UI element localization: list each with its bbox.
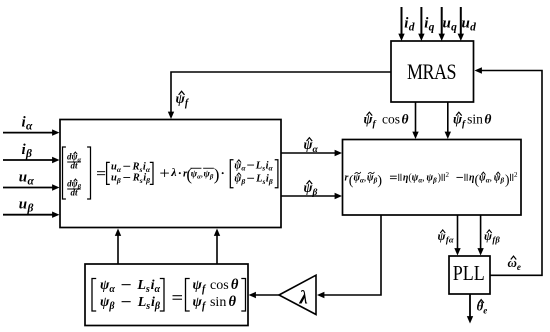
svg-text:β: β bbox=[494, 235, 500, 245]
svg-text:): ) bbox=[438, 173, 441, 184]
label decomposition equation bbox=[92, 277, 246, 312]
svg-text:β: β bbox=[26, 203, 33, 215]
block MRAS bbox=[391, 41, 474, 102]
svg-text:s: s bbox=[139, 176, 143, 185]
wire input i_α bbox=[3, 129, 60, 135]
svg-text:λ: λ bbox=[170, 165, 177, 179]
svg-text:cos: cos bbox=[210, 278, 229, 293]
svg-text:2: 2 bbox=[514, 171, 518, 179]
label psi_f_hat cos theta bbox=[364, 112, 409, 130]
label u_β bbox=[19, 197, 34, 215]
svg-text:θ: θ bbox=[229, 294, 237, 310]
svg-text:s: s bbox=[145, 301, 150, 312]
block r-function bbox=[343, 140, 522, 216]
block PLL bbox=[449, 256, 490, 294]
label psi_alpha_hat bbox=[304, 137, 319, 155]
svg-text:): ) bbox=[505, 172, 510, 187]
label psi_f_alpha_hat bbox=[438, 229, 454, 245]
wire theta_e_hat PLL output bbox=[467, 294, 473, 324]
block observer: adaptive flux observer equation box bbox=[60, 120, 281, 228]
wire input u_d into MRAS bbox=[458, 7, 464, 41]
svg-text:q: q bbox=[451, 22, 457, 34]
wire lambda output to flux decomposition box bbox=[249, 292, 280, 298]
svg-text:α: α bbox=[26, 120, 33, 132]
label observer equation bbox=[63, 147, 278, 199]
label omega_e_hat bbox=[508, 255, 521, 272]
svg-text:ψ: ψ bbox=[193, 278, 203, 293]
svg-text:u: u bbox=[19, 197, 27, 213]
svg-text:u: u bbox=[443, 16, 451, 32]
label theta_e_hat bbox=[477, 299, 488, 316]
svg-text:sin: sin bbox=[467, 112, 483, 127]
svg-text:β: β bbox=[145, 176, 150, 185]
svg-text:,: , bbox=[489, 173, 492, 184]
svg-text:): ) bbox=[214, 165, 220, 184]
wire r output to lambda gain bbox=[317, 215, 381, 298]
label psi_f_hat sin theta bbox=[453, 112, 491, 130]
label i_q bbox=[424, 16, 434, 34]
svg-text:β: β bbox=[116, 176, 121, 185]
svg-text:2: 2 bbox=[445, 171, 449, 179]
wire decomposition to observer right bbox=[214, 229, 220, 265]
svg-text:e: e bbox=[517, 262, 521, 272]
svg-text:α: α bbox=[154, 284, 160, 295]
svg-text:d: d bbox=[470, 22, 476, 34]
svg-text:u: u bbox=[19, 169, 27, 185]
block flux decomposition box bbox=[85, 264, 248, 326]
svg-text:θ: θ bbox=[231, 277, 239, 293]
svg-text:L: L bbox=[255, 160, 262, 171]
svg-text:s: s bbox=[145, 284, 150, 295]
svg-text:α: α bbox=[27, 175, 34, 187]
label r-function equation bbox=[345, 171, 519, 188]
svg-text:u: u bbox=[462, 16, 470, 32]
svg-text:β: β bbox=[268, 177, 273, 186]
label i_β bbox=[22, 142, 32, 160]
svg-text:β: β bbox=[108, 301, 115, 312]
wire input i_β bbox=[3, 157, 60, 163]
wire input u_α bbox=[3, 184, 60, 190]
svg-text:θ: θ bbox=[484, 112, 491, 127]
wire psi_f_hat cos(theta) from MRAS to r-box bbox=[412, 102, 418, 139]
label i_α bbox=[22, 114, 33, 132]
svg-text:q: q bbox=[429, 22, 435, 34]
svg-text:s: s bbox=[262, 177, 266, 186]
wire input i_d into MRAS bbox=[398, 7, 404, 41]
wire psi_f_alpha_hat r-box to PLL bbox=[454, 215, 460, 256]
wire psi_f_beta_hat r-box to PLL bbox=[477, 215, 483, 256]
svg-text:β: β bbox=[154, 301, 161, 312]
label psi_beta_hat bbox=[304, 180, 318, 198]
label psi_f_beta_hat bbox=[484, 229, 500, 245]
svg-text:β: β bbox=[499, 177, 504, 185]
svg-text:L: L bbox=[136, 278, 146, 293]
svg-text:L: L bbox=[255, 174, 262, 185]
svg-text:β: β bbox=[312, 188, 318, 198]
svg-text:α: α bbox=[109, 284, 115, 295]
svg-text:): ) bbox=[377, 173, 382, 188]
svg-text:,: , bbox=[422, 173, 425, 184]
svg-text:cos: cos bbox=[382, 112, 400, 127]
wire input i_q into MRAS bbox=[418, 7, 424, 41]
svg-text:β: β bbox=[25, 148, 32, 160]
svg-text:R: R bbox=[132, 162, 140, 173]
svg-text:λ: λ bbox=[299, 289, 308, 309]
wire input u_q into MRAS bbox=[439, 7, 445, 41]
svg-text:α: α bbox=[449, 235, 454, 245]
wire decomposition to observer left bbox=[115, 229, 121, 265]
wire psi_f_hat from MRAS to observer bbox=[168, 72, 391, 119]
label u_q bbox=[443, 16, 458, 34]
svg-text:d: d bbox=[409, 22, 415, 34]
gain lambda triangle bbox=[279, 275, 316, 314]
svg-text:sin: sin bbox=[210, 295, 226, 310]
svg-text:L: L bbox=[137, 295, 147, 310]
wire psi_beta_hat observer to r-box bbox=[281, 193, 342, 199]
wire omega_e_hat PLL to MRAS feedback bbox=[475, 67, 543, 275]
wire psi_f_hat sin(theta) from MRAS to r-box bbox=[445, 102, 451, 139]
label psi_f_hat bbox=[176, 91, 190, 109]
svg-text:e: e bbox=[483, 306, 487, 316]
svg-text:PLL: PLL bbox=[453, 262, 485, 286]
svg-text:β: β bbox=[240, 177, 245, 186]
label u_α bbox=[19, 169, 35, 187]
label u_d bbox=[462, 16, 477, 34]
svg-text:s: s bbox=[261, 164, 265, 173]
svg-text:R: R bbox=[132, 173, 140, 184]
wire psi_alpha_hat observer to r-box bbox=[281, 150, 342, 156]
svg-text:β: β bbox=[432, 177, 437, 185]
svg-text:ψ: ψ bbox=[193, 295, 203, 310]
wire input u_β bbox=[3, 212, 60, 218]
svg-text:MRAS: MRAS bbox=[407, 60, 456, 84]
svg-text:α: α bbox=[313, 145, 319, 155]
svg-text:θ: θ bbox=[402, 112, 409, 127]
label i_d bbox=[404, 16, 414, 34]
